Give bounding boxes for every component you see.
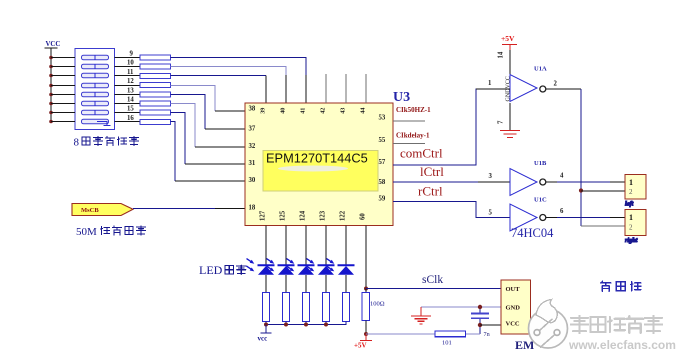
ground (oscillator) (411, 307, 431, 324)
svg-text:U3: U3 (393, 90, 410, 105)
net comCtrl (393, 89, 510, 165)
watermark brand text (Chinese) (571, 316, 662, 333)
watermark url (568, 338, 676, 352)
svg-text:+5V: +5V (354, 342, 367, 350)
svg-text:CIk50HZ-1: CIk50HZ-1 (396, 106, 431, 114)
wire +5V to U1A pin14 (498, 50, 511, 75)
oscillator Y1 (501, 280, 531, 334)
svg-text:38: 38 (249, 106, 256, 113)
svg-text:www.elecfans.com: www.elecfans.com (568, 338, 676, 352)
svg-text:50M: 50M (76, 226, 97, 238)
LED D5 (327, 259, 355, 275)
capacitor C1 7n (471, 307, 490, 338)
resistor R2 (140, 64, 171, 69)
resistor R3 (140, 73, 171, 78)
svg-text:2: 2 (629, 188, 633, 196)
svg-text:127: 127 (259, 210, 266, 221)
LED D1 (247, 259, 275, 275)
svg-text:5: 5 (489, 210, 493, 217)
svg-text:LED: LED (199, 263, 223, 277)
net lCtrl (393, 164, 510, 182)
label 74HC04 (511, 226, 554, 240)
connector J1 left (625, 175, 646, 200)
power VCC (top left) (45, 41, 61, 58)
switch pads rows 1-8 (82, 55, 109, 124)
svg-text:6: 6 (560, 208, 564, 215)
resistor R6 (140, 101, 171, 106)
switch common hook (97, 122, 111, 126)
designator U3 (393, 90, 410, 105)
svg-text:101: 101 (442, 340, 452, 347)
resistor RL5 (343, 293, 350, 322)
wire net11 to pin39 (171, 76, 267, 104)
svg-text:11: 11 (127, 69, 134, 76)
svg-text:7: 7 (498, 120, 505, 124)
svg-text:13: 13 (127, 87, 134, 94)
label LED display (Chinese) (199, 263, 246, 277)
wire bus to right connector pin2 (581, 225, 625, 227)
label 50M crystal (Chinese) (76, 226, 146, 238)
wire net15 to pin31 (171, 113, 246, 165)
svg-text:CIkdelay-1: CIkdelay-1 (396, 132, 430, 140)
power +5V (U1A) (501, 34, 517, 50)
svg-text:53: 53 (379, 115, 386, 122)
op U1A inverter (506, 66, 547, 102)
svg-text:58: 58 (379, 179, 386, 186)
junction dots on VCC rail (49, 56, 53, 124)
pin numbers top row (259, 108, 366, 114)
svg-text:EPM1270T144C5: EPM1270T144C5 (266, 151, 368, 166)
label left (625, 201, 634, 208)
wire U1B output pin4 (546, 173, 625, 183)
svg-text:3: 3 (489, 173, 493, 180)
LED D4 (307, 259, 335, 275)
svg-text:1: 1 (629, 178, 633, 187)
svg-text:vcc: vcc (258, 335, 268, 343)
pin numbers bottom row (259, 210, 366, 221)
pin numbers right side (379, 115, 386, 203)
svg-text:39: 39 (259, 108, 266, 114)
wire net10 to pin40 (171, 67, 287, 104)
svg-text:31: 31 (249, 160, 256, 167)
connector J2 right (625, 210, 646, 236)
svg-text:14: 14 (127, 97, 134, 104)
svg-text:124: 124 (299, 210, 306, 221)
label 8-bit DIP switch (Chinese) (74, 137, 139, 149)
IC U3 inner label box (263, 151, 378, 192)
svg-text:12: 12 (127, 78, 134, 85)
label EM (partial) (515, 338, 534, 352)
label LCD panel (Chinese) (601, 281, 641, 291)
wire U1A input pin1 (476, 80, 510, 89)
svg-text:VCC: VCC (506, 321, 520, 328)
svg-text:74HC04: 74HC04 (511, 226, 554, 240)
svg-text:OUT: OUT (506, 286, 521, 293)
op U1B inverter (489, 160, 547, 196)
op U1C inverter (489, 197, 547, 232)
wire net13 to pin37 (171, 95, 246, 130)
svg-text:1: 1 (488, 80, 492, 87)
resistor RL1 (263, 293, 270, 322)
wire LED cathode rail (266, 322, 346, 325)
ground (U1A) (500, 131, 520, 138)
power vcc (bottom) (258, 325, 272, 343)
wires switch to resistors (115, 58, 141, 122)
svg-text:18: 18 (249, 205, 256, 212)
stub pin 53 CIk50HZ-1 (393, 106, 431, 121)
svg-text:left: left (625, 201, 634, 208)
wire MsCB to pin18 (133, 208, 245, 210)
svg-text:VCC: VCC (46, 41, 61, 48)
svg-text:MsCB: MsCB (81, 207, 99, 214)
svg-text:55: 55 (379, 137, 386, 144)
svg-text:U1A: U1A (534, 66, 547, 73)
wire net16 to pin30 (171, 122, 246, 182)
svg-text:123: 123 (319, 210, 326, 221)
svg-text:10: 10 (127, 60, 134, 67)
svg-text:40: 40 (279, 108, 286, 114)
svg-text:32: 32 (249, 143, 256, 150)
svg-text:4: 4 (560, 173, 564, 180)
svg-text:100Ω: 100Ω (370, 301, 385, 308)
stub pin 55 CIkdelay-1 (393, 132, 430, 144)
svg-text:125: 125 (279, 210, 286, 221)
svg-text:43: 43 (339, 108, 346, 114)
wire U1C output pin6 (546, 208, 625, 218)
resistor R1 (140, 55, 171, 60)
svg-text:7n: 7n (484, 331, 490, 338)
svg-text:2: 2 (629, 224, 633, 232)
resistor RL2 (283, 293, 290, 322)
svg-text:comCtrl: comCtrl (400, 146, 443, 161)
resistor R8 (140, 119, 171, 124)
svg-text:60: 60 (359, 213, 366, 220)
svg-text:16: 16 (127, 115, 134, 122)
resistor 101 (435, 331, 466, 347)
junction +5V rail (364, 332, 368, 336)
net sClk (366, 274, 501, 289)
wire oscillator VCC (480, 324, 501, 326)
watermark logo disc (529, 300, 568, 349)
resistor R4 (140, 83, 171, 88)
wire net9 to pin41 (171, 58, 307, 104)
wires chip bottom pins to LEDs (266, 226, 346, 266)
svg-text:rCtrl: rCtrl (418, 184, 443, 199)
svg-text:U1B: U1B (534, 160, 547, 167)
resistor 100ohm (362, 289, 385, 335)
svg-text:59: 59 (379, 196, 386, 203)
wire net14 to pin32 (171, 104, 246, 148)
svg-text:lCtrl: lCtrl (420, 164, 444, 179)
svg-text:8: 8 (74, 137, 80, 149)
svg-text:57: 57 (379, 159, 386, 166)
net numbers 9-16 (127, 51, 134, 122)
svg-text:GND: GND (506, 305, 521, 312)
svg-text:1: 1 (629, 213, 633, 222)
wire bottom rail (366, 333, 480, 335)
LED D3 (287, 259, 315, 275)
svg-text:right: right (625, 237, 638, 244)
resistor RL4 (323, 293, 330, 322)
resistor R7 (140, 110, 171, 115)
wire bus to left connector pin2 (581, 190, 625, 192)
resistor RL3 (303, 293, 310, 322)
junctions on rail (264, 323, 328, 327)
wires LEDs to resistors (266, 275, 346, 293)
pin numbers left side (249, 106, 256, 212)
wire oscillator GND (421, 306, 501, 308)
stub pin 42 (325, 74, 327, 103)
power +5V (bottom) (354, 334, 372, 350)
resistor R5 (140, 92, 171, 97)
svg-text:9: 9 (130, 51, 134, 58)
svg-text:+5V: +5V (501, 34, 515, 43)
wire pin60 column (365, 226, 367, 289)
svg-text:U1C: U1C (534, 197, 547, 204)
svg-text:37: 37 (249, 126, 256, 133)
IC U3 body (245, 103, 393, 226)
svg-text:15: 15 (127, 106, 134, 113)
port MsCB flag (72, 204, 133, 216)
svg-text:41: 41 (299, 108, 306, 114)
svg-text:14: 14 (498, 51, 505, 58)
junction on bus (579, 188, 583, 192)
LED D2 (267, 259, 295, 275)
wires VCC rail to switch (51, 58, 75, 122)
stub pin 43 (345, 74, 347, 103)
svg-text:44: 44 (359, 108, 366, 114)
wire U1A output pin2 (546, 81, 581, 90)
junction cap top (478, 305, 482, 309)
stub pin 44 (365, 74, 367, 103)
wire U1A out vertical bus (580, 89, 582, 226)
junction cap/VCC wire (478, 323, 482, 327)
wire VCC rail (50, 58, 52, 122)
svg-text:42: 42 (319, 108, 326, 114)
label right (625, 237, 638, 244)
svg-text:30: 30 (249, 177, 256, 184)
svg-text:sClk: sClk (422, 274, 443, 286)
svg-text:122: 122 (339, 210, 346, 221)
net rCtrl (393, 184, 510, 218)
junction pin60/sClk (364, 287, 368, 291)
svg-text:2: 2 (554, 81, 558, 88)
switch S1 8-position DIP body (75, 49, 115, 130)
wire U1A pin7 to ground (498, 103, 511, 130)
wire net12 to pin38 (171, 86, 246, 112)
